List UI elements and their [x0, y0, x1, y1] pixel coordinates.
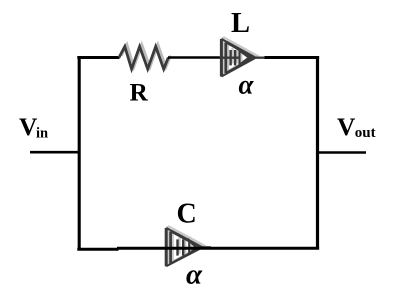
svg-text:R: R: [130, 78, 149, 106]
svg-text:α: α: [239, 69, 255, 99]
svg-text:C: C: [177, 199, 197, 230]
exponent label alpha (fractor C): [186, 259, 203, 291]
value label R: [130, 78, 149, 106]
exponent label alpha (fractor L): [239, 69, 255, 99]
resistor R: [119, 45, 171, 69]
value label C: [177, 199, 197, 230]
wire: right vertical branch: [316, 56, 319, 250]
value label L: [231, 8, 250, 39]
wire: left vertical branch: [78, 56, 81, 251]
wire: top-left segment (corner to resistor): [77, 56, 119, 59]
svg-text:in: in: [36, 126, 48, 142]
wire: top-middle segment (resistor to fractor L): [168, 56, 221, 59]
node Vin label: [19, 113, 48, 141]
svg-text:out: out: [355, 125, 376, 141]
wire: input lead from Vin: [30, 151, 80, 154]
fractor L (fractional-order inductor symbol): [220, 37, 266, 77]
svg-text:V: V: [337, 113, 356, 141]
svg-text:α: α: [186, 259, 203, 291]
wire: top-right segment (fractor L to corner): [265, 56, 320, 59]
fractor C (fractional-order capacitor symbol): [166, 226, 211, 266]
svg-text:L: L: [231, 8, 250, 39]
wire: output lead to Vout: [316, 151, 366, 154]
wire: bottom-right segment: [117, 247, 319, 250]
wire: bottom-left segment: [77, 248, 118, 251]
node Vout label: [337, 113, 376, 141]
